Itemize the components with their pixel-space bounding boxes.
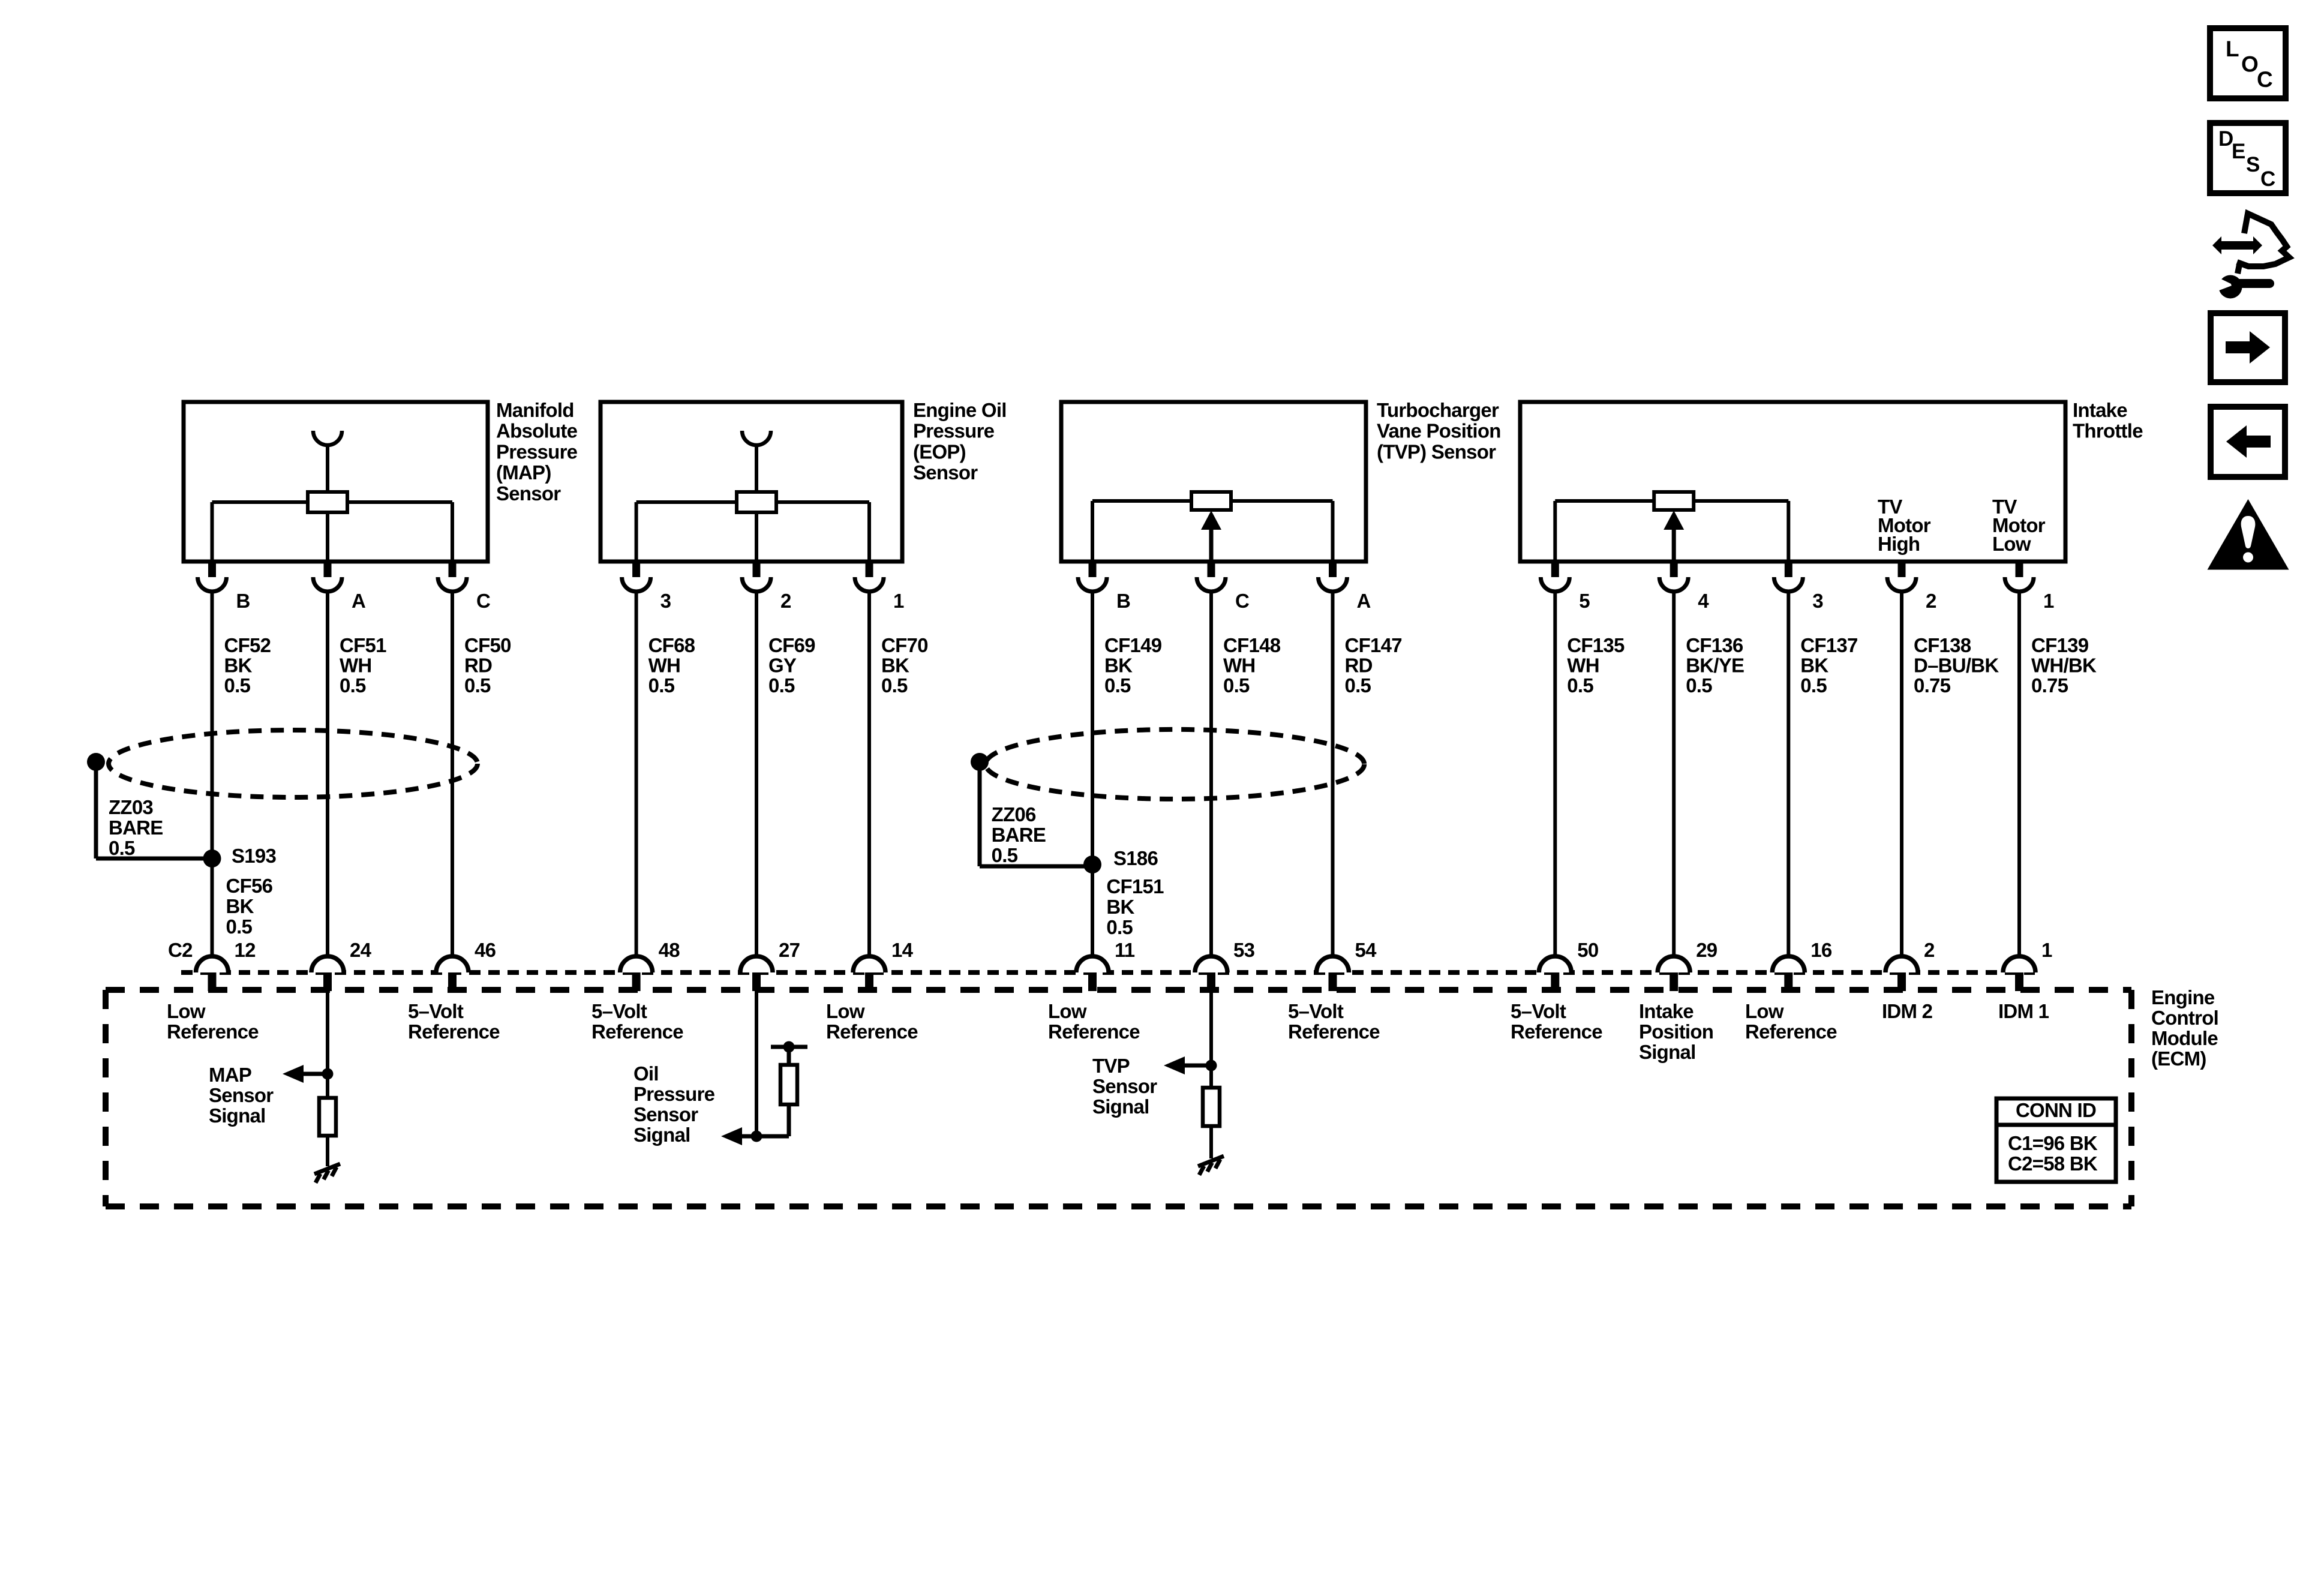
svg-text:WH/BK: WH/BK xyxy=(2031,655,2097,677)
svg-text:Reference: Reference xyxy=(408,1020,500,1043)
svg-text:12: 12 xyxy=(235,939,256,961)
svg-text:53: 53 xyxy=(1233,939,1255,961)
svg-text:54: 54 xyxy=(1355,939,1377,961)
svg-text:WH: WH xyxy=(648,655,680,677)
svg-text:27: 27 xyxy=(779,939,800,961)
svg-text:CF147: CF147 xyxy=(1345,634,1402,656)
svg-text:Engine: Engine xyxy=(2151,986,2215,1008)
svg-text:Reference: Reference xyxy=(826,1020,918,1043)
svg-text:Intake: Intake xyxy=(1639,1000,1694,1022)
svg-text:Signal: Signal xyxy=(633,1124,690,1146)
svg-text:CF70: CF70 xyxy=(881,634,928,656)
svg-text:Signal: Signal xyxy=(209,1104,266,1127)
svg-text:0.5: 0.5 xyxy=(768,674,795,697)
svg-text:BK: BK xyxy=(226,895,254,917)
svg-text:Position: Position xyxy=(1639,1020,1713,1043)
svg-text:GY: GY xyxy=(768,655,797,677)
svg-text:2: 2 xyxy=(1926,590,1936,612)
svg-text:BK: BK xyxy=(1106,896,1134,918)
svg-text:(TVP) Sensor: (TVP) Sensor xyxy=(1377,440,1496,463)
svg-text:IDM 1: IDM 1 xyxy=(1998,1000,2049,1022)
svg-text:CF138: CF138 xyxy=(1914,634,1971,656)
svg-text:MAP: MAP xyxy=(209,1064,251,1086)
svg-text:Sensor: Sensor xyxy=(913,461,978,484)
svg-text:C: C xyxy=(2257,67,2273,92)
svg-text:(MAP): (MAP) xyxy=(496,461,551,484)
svg-text:C1=96 BK: C1=96 BK xyxy=(2008,1132,2098,1154)
svg-text:5–Volt: 5–Volt xyxy=(591,1000,647,1022)
svg-text:0.5: 0.5 xyxy=(340,674,366,697)
svg-text:Low: Low xyxy=(1048,1000,1087,1022)
svg-text:16: 16 xyxy=(1810,939,1832,961)
svg-text:CF51: CF51 xyxy=(340,634,386,656)
svg-text:IDM 2: IDM 2 xyxy=(1882,1000,1933,1022)
svg-text:Reference: Reference xyxy=(167,1020,259,1043)
svg-text:Reference: Reference xyxy=(1511,1020,1602,1043)
svg-text:3: 3 xyxy=(660,590,671,612)
svg-text:4: 4 xyxy=(1698,590,1709,612)
svg-text:Control: Control xyxy=(2151,1007,2218,1029)
svg-text:0.5: 0.5 xyxy=(1686,674,1712,697)
svg-text:Low: Low xyxy=(167,1000,206,1022)
svg-text:14: 14 xyxy=(891,939,914,961)
svg-text:C: C xyxy=(476,590,490,612)
svg-text:CONN ID: CONN ID xyxy=(2016,1099,2096,1121)
svg-text:Sensor: Sensor xyxy=(209,1084,274,1106)
svg-text:0.75: 0.75 xyxy=(1914,674,1951,697)
svg-text:C2: C2 xyxy=(168,939,193,961)
svg-text:0.5: 0.5 xyxy=(1345,674,1371,697)
svg-text:1: 1 xyxy=(2041,939,2052,961)
svg-text:High: High xyxy=(1878,533,1920,555)
svg-text:L: L xyxy=(2226,37,2239,61)
svg-text:2: 2 xyxy=(780,590,791,612)
svg-text:Sensor: Sensor xyxy=(496,482,561,505)
svg-text:WH: WH xyxy=(1567,655,1599,677)
svg-text:0.75: 0.75 xyxy=(2031,674,2068,697)
svg-text:Vane Position: Vane Position xyxy=(1377,420,1501,442)
svg-text:1: 1 xyxy=(893,590,904,612)
svg-text:Low: Low xyxy=(826,1000,865,1022)
svg-text:S: S xyxy=(2246,153,2260,176)
svg-text:C: C xyxy=(2260,167,2275,191)
svg-text:0.5: 0.5 xyxy=(1567,674,1593,697)
svg-text:Turbocharger: Turbocharger xyxy=(1377,399,1499,421)
svg-text:BK: BK xyxy=(881,655,909,677)
svg-text:B: B xyxy=(1116,590,1130,612)
svg-text:BK: BK xyxy=(224,655,253,677)
svg-text:Reference: Reference xyxy=(1745,1020,1837,1043)
svg-text:BARE: BARE xyxy=(992,824,1046,846)
svg-text:Reference: Reference xyxy=(591,1020,683,1043)
svg-text:0.5: 0.5 xyxy=(1223,674,1250,697)
svg-text:Throttle: Throttle xyxy=(2073,420,2143,442)
svg-text:3: 3 xyxy=(1812,590,1823,612)
svg-text:BK/YE: BK/YE xyxy=(1686,655,1744,677)
svg-text:CF50: CF50 xyxy=(464,634,511,656)
svg-text:S193: S193 xyxy=(232,845,276,867)
svg-text:46: 46 xyxy=(475,939,496,961)
svg-text:RD: RD xyxy=(464,655,492,677)
svg-text:WH: WH xyxy=(1223,655,1255,677)
svg-text:CF69: CF69 xyxy=(768,634,815,656)
svg-text:CF149: CF149 xyxy=(1104,634,1162,656)
svg-text:Absolute: Absolute xyxy=(496,420,578,442)
svg-text:CF148: CF148 xyxy=(1223,634,1281,656)
svg-text:A: A xyxy=(352,590,365,612)
svg-text:(EOP): (EOP) xyxy=(913,440,966,463)
svg-text:Manifold: Manifold xyxy=(496,399,574,421)
svg-text:B: B xyxy=(236,590,250,612)
svg-text:Sensor: Sensor xyxy=(633,1103,698,1125)
svg-text:C2=58 BK: C2=58 BK xyxy=(2008,1152,2098,1175)
svg-text:CF136: CF136 xyxy=(1686,634,1743,656)
svg-text:Module: Module xyxy=(2151,1027,2218,1049)
svg-text:0.5: 0.5 xyxy=(1800,674,1827,697)
svg-text:0.5: 0.5 xyxy=(648,674,675,697)
svg-text:1: 1 xyxy=(2043,590,2054,612)
svg-text:Intake: Intake xyxy=(2073,399,2127,421)
svg-text:Pressure: Pressure xyxy=(633,1083,715,1105)
svg-text:11: 11 xyxy=(1115,939,1135,961)
svg-text:Pressure: Pressure xyxy=(913,420,995,442)
svg-text:Signal: Signal xyxy=(1639,1041,1696,1063)
svg-text:5–Volt: 5–Volt xyxy=(1288,1000,1344,1022)
svg-text:Low: Low xyxy=(1745,1000,1784,1022)
svg-text:5: 5 xyxy=(1579,590,1590,612)
svg-text:S186: S186 xyxy=(1113,847,1158,869)
svg-text:50: 50 xyxy=(1577,939,1598,961)
svg-text:C: C xyxy=(1235,590,1249,612)
svg-text:TVP: TVP xyxy=(1092,1055,1130,1077)
svg-text:E: E xyxy=(2232,140,2245,163)
svg-text:Low: Low xyxy=(1992,533,2031,555)
svg-text:CF137: CF137 xyxy=(1800,634,1857,656)
svg-text:Reference: Reference xyxy=(1288,1020,1380,1043)
svg-text:0.5: 0.5 xyxy=(109,837,135,859)
svg-text:BK: BK xyxy=(1800,655,1828,677)
svg-text:29: 29 xyxy=(1696,939,1718,961)
svg-text:(ECM): (ECM) xyxy=(2151,1047,2206,1070)
svg-text:0.5: 0.5 xyxy=(224,674,251,697)
svg-text:0.5: 0.5 xyxy=(881,674,908,697)
svg-text:Reference: Reference xyxy=(1048,1020,1140,1043)
svg-text:CF139: CF139 xyxy=(2031,634,2089,656)
svg-text:0.5: 0.5 xyxy=(1106,916,1133,938)
svg-text:5–Volt: 5–Volt xyxy=(408,1000,464,1022)
svg-text:48: 48 xyxy=(659,939,680,961)
svg-text:0.5: 0.5 xyxy=(1104,674,1131,697)
svg-text:WH: WH xyxy=(340,655,371,677)
svg-text:0.5: 0.5 xyxy=(464,674,491,697)
svg-text:CF52: CF52 xyxy=(224,634,271,656)
svg-text:RD: RD xyxy=(1345,655,1373,677)
svg-text:CF56: CF56 xyxy=(226,875,273,897)
svg-text:Pressure: Pressure xyxy=(496,440,578,463)
svg-text:Oil: Oil xyxy=(633,1062,659,1085)
svg-text:A: A xyxy=(1357,590,1371,612)
svg-text:ZZ06: ZZ06 xyxy=(992,803,1036,825)
svg-text:0.5: 0.5 xyxy=(992,844,1018,866)
svg-text:CF68: CF68 xyxy=(648,634,695,656)
svg-text:BARE: BARE xyxy=(109,816,163,839)
svg-text:Engine Oil: Engine Oil xyxy=(913,399,1007,421)
svg-text:Sensor: Sensor xyxy=(1092,1075,1157,1097)
svg-text:D–BU/BK: D–BU/BK xyxy=(1914,655,1999,677)
svg-text:Signal: Signal xyxy=(1092,1095,1149,1118)
svg-text:BK: BK xyxy=(1104,655,1133,677)
svg-text:CF151: CF151 xyxy=(1106,875,1164,897)
svg-text:5–Volt: 5–Volt xyxy=(1511,1000,1566,1022)
svg-text:ZZ03: ZZ03 xyxy=(109,796,153,818)
svg-text:O: O xyxy=(2241,52,2259,77)
svg-text:0.5: 0.5 xyxy=(226,915,253,938)
svg-text:CF135: CF135 xyxy=(1567,634,1625,656)
svg-text:24: 24 xyxy=(350,939,372,961)
svg-text:2: 2 xyxy=(1924,939,1935,961)
